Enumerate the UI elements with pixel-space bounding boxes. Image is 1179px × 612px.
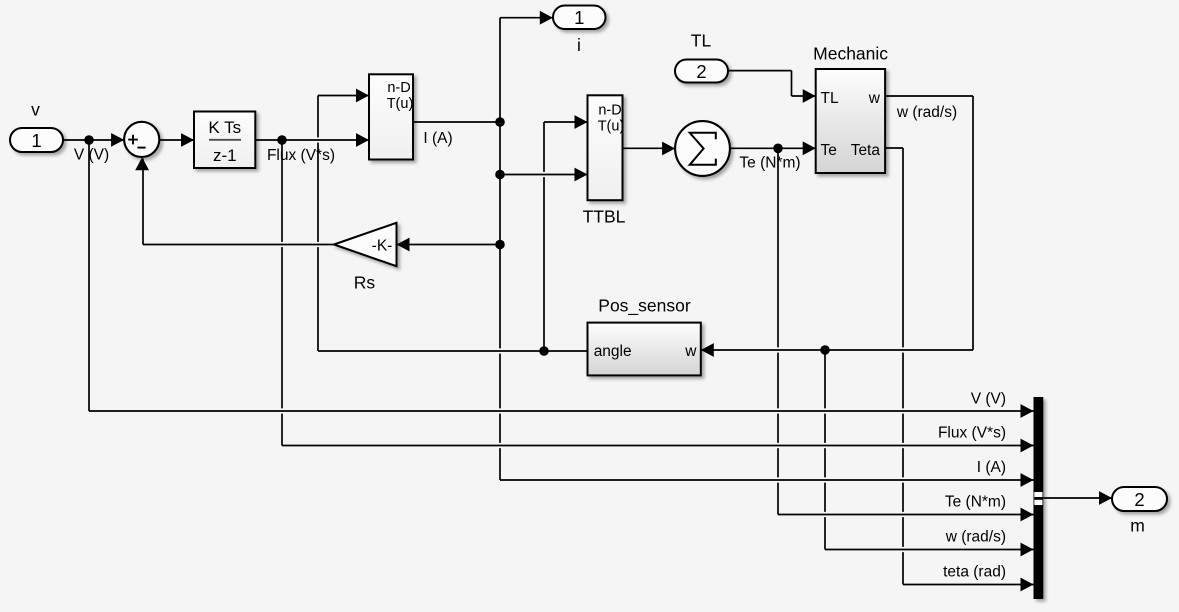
node Te tap — [773, 144, 783, 154]
lookup table block TTBL (n-D T(u)) — [583, 95, 626, 226]
arrow into mux Te row — [1021, 508, 1034, 522]
svg-text:z-1: z-1 — [213, 146, 237, 165]
lookup table block 1 (n-D T(u)) — [369, 74, 413, 159]
arrow into out port m — [1099, 491, 1112, 505]
wire: sigma out to Mechanic Te — [730, 147, 816, 149]
svg-text:m: m — [1130, 516, 1145, 536]
wire: port v to sum — [63, 139, 124, 141]
arrow into TTBL top — [575, 115, 588, 129]
arrow into mux Flux row — [1021, 439, 1034, 453]
gain Rs (-K-) — [334, 223, 397, 293]
wire: w from x=973 into Pos_sensor — [706, 347, 968, 352]
arrow into out port i — [540, 11, 553, 25]
svg-text:w: w — [684, 343, 697, 360]
svg-text:v: v — [31, 100, 40, 120]
svg-text:n-D: n-D — [387, 80, 410, 96]
wire: w loop vertical x=973 — [972, 96, 974, 350]
wire: bus up to out port i — [500, 17, 553, 19]
input port 2 (TL) — [675, 31, 728, 83]
svg-text:V (V): V (V) — [74, 147, 109, 164]
svg-text:T(u): T(u) — [598, 119, 625, 135]
arrow into mux I row — [1021, 473, 1034, 487]
node angle tap — [539, 346, 549, 356]
node V(V) tap — [84, 135, 94, 145]
svg-text:TTBL: TTBL — [583, 207, 626, 227]
svg-text:K Ts: K Ts — [208, 118, 241, 137]
svg-text:w: w — [868, 90, 881, 107]
arrow into sigma — [662, 142, 675, 156]
wire: Te row to mux — [783, 512, 1030, 517]
wire: I(A) bus vertical x=500 — [499, 18, 501, 480]
wire: Rs gain output feedback — [148, 242, 330, 247]
svg-text:V (V): V (V) — [971, 390, 1006, 407]
block K Ts / z-1 (discrete transfer fcn) — [194, 112, 255, 169]
arrow into K Ts — [181, 133, 194, 147]
wire: Mechanic w out — [885, 95, 973, 97]
wire: angle elbow to lookup1 top input — [318, 95, 369, 97]
wire: teta row to mux — [908, 582, 1030, 587]
svg-text:1: 1 — [574, 7, 584, 28]
wire: angle feedback vertical x=318 — [317, 96, 319, 352]
sum junction 2 (sigma) — [675, 121, 730, 176]
subsystem Pos_sensor — [588, 296, 701, 376]
output port 1 (i) — [553, 6, 606, 56]
wire: teta vertical x=903 — [902, 148, 904, 585]
wire: w row to mux — [830, 547, 1030, 552]
subsystem Mechanic — [813, 44, 888, 173]
arrow into mux teta row — [1021, 578, 1034, 592]
svg-text:i: i — [577, 35, 581, 55]
node bus to gain — [495, 240, 505, 250]
output port 2 (m) — [1112, 487, 1167, 536]
wire: elbow to Mechanic TL input — [792, 95, 816, 97]
sum junction 1 (+ -) — [124, 122, 159, 157]
arrow into TTBL bottom — [575, 168, 588, 182]
svg-text:w (rad/s): w (rad/s) — [896, 104, 957, 121]
wire: V(V) tap vertical x=89 — [88, 140, 90, 411]
svg-text:teta (rad): teta (rad) — [943, 564, 1006, 581]
arrow into sum1 left — [111, 133, 124, 147]
wire: minus feedback vertical x=143 — [142, 159, 144, 245]
svg-text:Mechanic: Mechanic — [813, 44, 888, 64]
node w tap — [820, 345, 830, 355]
wire: angle from Pos_sensor to x=318 — [323, 348, 583, 353]
svg-text:-K-: -K- — [372, 237, 393, 254]
wire: Flux row to mux — [287, 443, 1030, 448]
input port 1 (v) — [10, 100, 63, 153]
wire: x544 elbow to TTBL top input — [544, 121, 588, 123]
wire: Mechanic Teta out — [885, 147, 903, 149]
svg-text:Flux (V*s): Flux (V*s) — [938, 425, 1006, 442]
arrow into sum1 bottom (minus) — [135, 157, 149, 170]
svg-text:n-D: n-D — [598, 103, 621, 119]
arrow into Mechanic TL — [803, 89, 816, 103]
wire: TTBL input2 from bus — [505, 172, 583, 177]
wire: TL port elbow vertical x=791.5 — [791, 71, 793, 96]
svg-text:Te (N*m): Te (N*m) — [945, 494, 1006, 511]
svg-text:w (rad/s): w (rad/s) — [945, 529, 1006, 546]
svg-text:Pos_sensor: Pos_sensor — [598, 296, 691, 317]
svg-text:2: 2 — [696, 61, 706, 82]
arrow into lookup1 bottom — [356, 133, 369, 147]
svg-text:Rs: Rs — [354, 273, 376, 293]
arrow into Mechanic Te — [803, 141, 816, 155]
svg-text:Te (N*m): Te (N*m) — [739, 154, 800, 171]
node Flux tap — [277, 135, 287, 145]
wire: angle to TTBL vertical x=544 — [543, 122, 545, 351]
svg-text:Teta: Teta — [851, 142, 881, 159]
wire: I(A) row to mux — [505, 477, 1030, 482]
arrow into Pos_sensor w (left pointing) — [701, 343, 714, 357]
svg-text:I (A): I (A) — [977, 459, 1006, 476]
svg-text:2: 2 — [1134, 489, 1144, 510]
arrow into mux w row — [1021, 543, 1034, 557]
svg-text:TL: TL — [821, 90, 839, 107]
wire: gain input from bus — [401, 242, 496, 247]
wire: TTBL out to sigma — [622, 147, 675, 149]
wire: sum to K Ts — [159, 139, 194, 141]
svg-text:Flux (V*s): Flux (V*s) — [267, 147, 335, 164]
arrow into mux V row — [1021, 404, 1034, 418]
svg-text:T(u): T(u) — [387, 96, 414, 112]
svg-text:TL: TL — [691, 31, 712, 51]
wire: Te tap vertical x=778 — [777, 148, 779, 515]
wire: V(V) row to mux — [94, 408, 1030, 413]
mux block — [1034, 397, 1044, 599]
wire: Flux KTs output to lookup — [260, 137, 364, 142]
wire: lookup1 output to bus — [413, 121, 500, 123]
wire: mux out to port m — [1043, 497, 1111, 499]
svg-text:1: 1 — [31, 130, 41, 151]
svg-text:I (A): I (A) — [423, 130, 452, 147]
svg-text:angle: angle — [594, 343, 632, 360]
wire: w tap vertical x=825 — [824, 350, 826, 550]
svg-text:Te: Te — [821, 142, 837, 159]
arrow into lookup1 top — [356, 89, 369, 103]
arrow into gain (left pointing) — [397, 238, 410, 252]
wire: TL port to elbow — [728, 70, 792, 72]
node bus to TTBL — [495, 170, 505, 180]
node I(A) on bus — [495, 117, 505, 127]
wire: Flux tap vertical x=282 — [281, 140, 283, 446]
